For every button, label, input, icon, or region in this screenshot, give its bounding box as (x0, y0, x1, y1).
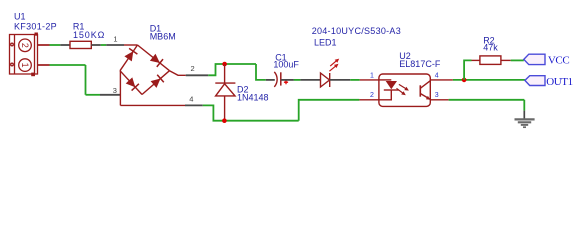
U2 transistor collector (420, 81, 430, 89)
svg-text:1N4148: 1N4148 (237, 93, 269, 103)
svg-text:EL817C-F: EL817C-F (399, 59, 441, 69)
C1 right pin (281, 79, 294, 81)
R1 left pin (60, 44, 70, 46)
svg-text:47k: 47k (483, 43, 498, 53)
svg-text:2: 2 (20, 43, 30, 48)
D1 bottom red rail (120, 104, 185, 106)
U2 emission arrow 1 (399, 84, 409, 90)
D2 bottom pin (224, 96, 226, 121)
U2 internal led cathode line (379, 90, 391, 100)
junction dot bottom rail (222, 118, 227, 123)
resistor R1 (70, 41, 91, 48)
svg-text:VCC: VCC (548, 54, 569, 66)
U2 pin 3 (431, 99, 449, 101)
U2 internal led anode line (379, 79, 391, 81)
bridge D1 diamond edges (120, 45, 170, 95)
wire bottom rail up to U2.2 (299, 100, 360, 121)
junction dot DC+ (222, 62, 227, 67)
U1 pin1 stub (38, 64, 50, 66)
wire LED1 to U2.1 (350, 79, 359, 81)
svg-text:KF301-2P: KF301-2P (14, 21, 57, 31)
D1 diode B (upper-right edge, cathode to right) (150, 54, 163, 67)
D1 diode A (upper-left edge, cathode to top) (124, 48, 137, 61)
svg-text:3: 3 (113, 86, 117, 95)
D1 pin1 red stub (124, 44, 138, 46)
C1 plus sign (284, 80, 288, 84)
svg-text:150KΩ: 150KΩ (73, 30, 105, 40)
U1 pin2 stub (38, 44, 50, 46)
svg-text:204-10UYC/S530-A3: 204-10UYC/S530-A3 (312, 26, 401, 36)
wire U1.2 to R1 (50, 44, 61, 46)
wire net4 step down (203, 105, 299, 120)
D1 pin 1 (106, 44, 124, 46)
R2 right pin (501, 59, 511, 61)
svg-text:100uF: 100uF (273, 60, 299, 70)
U2 internal LED bar (384, 89, 399, 91)
D1 diode D (lower-right edge, cathode to right) (151, 75, 164, 88)
wire to D1.3 (86, 94, 101, 96)
opto U2 box (379, 74, 430, 106)
U2 transistor emitter (420, 94, 430, 100)
svg-text:4: 4 (189, 95, 193, 104)
connector U1 KF301-2P body (10, 35, 38, 75)
wire down to GND (523, 100, 525, 111)
diode D2 triangle (216, 84, 235, 96)
wire U1.1 horizontal (50, 64, 86, 66)
C1 curved plate (274, 72, 277, 87)
U2 pin 4 (431, 79, 453, 81)
svg-text:1: 1 (20, 63, 30, 68)
resistor R2 (480, 56, 501, 65)
junction dot VCC net (462, 78, 467, 83)
svg-text:U1: U1 (14, 11, 26, 21)
D1 pin 2 (186, 74, 209, 76)
svg-text:2: 2 (370, 92, 374, 99)
wire C1 to LED1 (294, 79, 301, 81)
svg-text:1: 1 (370, 73, 374, 80)
R1 right pin (91, 44, 101, 46)
svg-text:MB6M: MB6M (150, 32, 176, 42)
svg-text:1: 1 (113, 35, 117, 44)
U2 emission arrow 2 (397, 88, 406, 95)
D2 top pin (224, 64, 226, 83)
LED1 left pin (300, 79, 320, 81)
U2 pin 1 (360, 79, 379, 81)
LED1 right pin (330, 79, 351, 81)
R2 left pin (472, 59, 480, 61)
wire up to R2 (464, 60, 471, 80)
svg-text:LED1: LED1 (314, 38, 337, 48)
U1 clamp square top (35, 33, 38, 36)
svg-text:OUT1: OUT1 (546, 76, 573, 88)
LED1 arrow 2 (329, 64, 338, 71)
C1 straight plate (280, 72, 282, 85)
D1 left corner red drop (119, 71, 121, 106)
LED1 cathode bar (329, 73, 331, 87)
D1 pin2 red diagonal (170, 71, 186, 76)
D1 pin 4 (185, 104, 203, 106)
LED LED1 triangle (321, 73, 330, 87)
wire DC+ up (208, 64, 256, 75)
wire U2.4 to node (453, 79, 525, 81)
svg-text:3: 3 (435, 92, 439, 99)
svg-text:2: 2 (191, 64, 195, 73)
ground symbol (515, 119, 535, 127)
supply flag VCC (524, 54, 545, 64)
LED1 arrow 1 (330, 59, 339, 67)
U1 clamp square bottom (31, 73, 35, 77)
wire down (85, 65, 87, 95)
capacitor C1 left pin (266, 79, 275, 81)
U2 pin 2 (359, 99, 379, 101)
U2 transistor base bar (419, 85, 421, 96)
svg-text:4: 4 (435, 73, 439, 80)
diode D2 cathode bar (215, 82, 235, 84)
wire U2.3 to OUT1/GND (449, 99, 525, 101)
wire DC+ down to C1 (256, 64, 266, 80)
wire R1 to D1.1 (101, 44, 106, 46)
D1 pin 3 (100, 94, 120, 96)
wire R2 to VCC flag (511, 59, 524, 61)
OUT1 flag wire already at 79.9; flag OUT1 (525, 76, 545, 86)
U2 internal LED triangle (386, 81, 397, 89)
D1 diode C (lower-left edge, cathode to bottom) (126, 77, 139, 90)
GND lead (523, 111, 525, 119)
